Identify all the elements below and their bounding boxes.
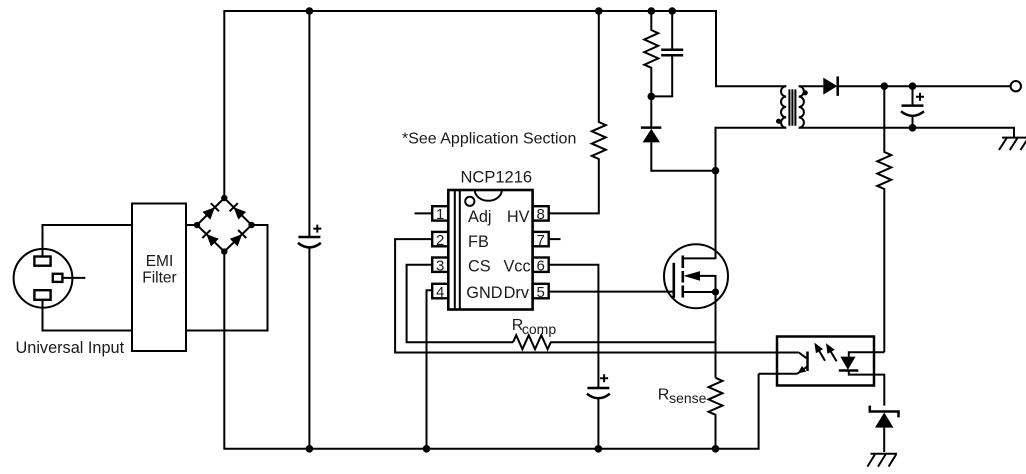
- MOSFET Q1: [664, 244, 728, 308]
- wire: primary bottom to MOSFET drain: [716, 128, 787, 259]
- EMI filter block: [132, 204, 186, 352]
- junction: Vcc cap on bottom rail: [595, 445, 603, 453]
- wire: pin 3 CS to Rcomp line: [407, 265, 513, 343]
- wire: secondary bottom / output return: [799, 128, 1014, 138]
- wire: pin 6 Vcc line: [549, 265, 599, 388]
- svg-text:Drv: Drv: [504, 284, 530, 302]
- wire: plug neutral to EMI filter (bottom): [43, 300, 133, 331]
- svg-text:Adj: Adj: [468, 208, 492, 226]
- svg-text:sense: sense: [669, 390, 707, 406]
- junction: bridge bottom corner: [221, 248, 227, 254]
- label: Universal Input: [16, 339, 125, 357]
- transformer T1 primary winding: [781, 86, 786, 128]
- svg-text:*See Application Section: *See Application Section: [402, 131, 576, 148]
- output rectifier diode D6: [823, 76, 837, 96]
- junction: bridge top corner: [221, 195, 227, 201]
- svg-text:comp: comp: [522, 321, 556, 337]
- optocoupler light arrows: [814, 343, 836, 362]
- bridge rectifier BR1: [197, 198, 252, 252]
- IC pin 4 box: [432, 284, 448, 301]
- snubber capacitor C2: [651, 11, 683, 96]
- junction: snubber R and C bottom: [648, 93, 656, 101]
- wire: plug line to EMI filter (top): [43, 225, 133, 257]
- bulk capacitor C1 (polarized): [298, 11, 321, 449]
- resistor R5 Rsense: [709, 378, 723, 449]
- IC pin labels: [466, 208, 530, 302]
- Vcc capacitor C4 (polarized): [587, 374, 610, 449]
- bridge diode D3 (bottom corner to left corner): [202, 230, 219, 246]
- wire: bottom primary ground rail: [224, 252, 758, 449]
- resistor R1 (HV startup, see application section): [549, 11, 606, 213]
- IC pin 2 box: [432, 232, 448, 249]
- output terminal: [1011, 81, 1021, 91]
- resistor R4 Rcomp: [513, 335, 716, 349]
- wire: opto emitter to ground rail: [759, 373, 777, 375]
- transformer T1 secondary winding: [799, 86, 804, 128]
- junction: bulk cap on top rail: [306, 7, 314, 15]
- wire: bridge AC2 return to EMI filter: [186, 225, 268, 331]
- svg-text:4: 4: [436, 284, 444, 301]
- junction: output cap bottom: [909, 124, 917, 132]
- svg-text:1: 1: [436, 206, 444, 223]
- IC body: [448, 190, 532, 310]
- IC pin 5 box: [533, 284, 549, 301]
- wire: secondary top to output diode: [799, 85, 824, 87]
- AC plug P1 (universal input connector): [14, 249, 86, 308]
- svg-text:5: 5: [537, 284, 545, 301]
- IC pin 1 box: [432, 206, 448, 223]
- IC pin 8 box: [533, 206, 549, 223]
- bridge diode D2 (right corner to top corner): [230, 203, 247, 219]
- snubber resistor R2: [644, 11, 658, 96]
- wire: MOSFET source to Rsense: [715, 292, 717, 378]
- junction: snubber resistor on rail: [648, 7, 656, 15]
- svg-text:HV: HV: [507, 208, 530, 226]
- wire: pin 2 FB to optocoupler collector: [395, 239, 799, 352]
- junction: bulk cap on bottom rail: [306, 445, 314, 453]
- label: Rsense: [658, 387, 707, 407]
- zener diode Z1: [870, 406, 899, 452]
- transformer T1 core: [789, 89, 795, 125]
- bridge diode D1 (left corner to top corner): [203, 203, 220, 219]
- wire: top DC+ rail: [224, 11, 786, 198]
- ground: zener ground: [867, 454, 897, 467]
- output capacitor C3 (polarized): [901, 86, 924, 128]
- svg-text:Universal Input: Universal Input: [16, 339, 125, 357]
- wire: pin 7 stub: [549, 238, 561, 240]
- svg-text:Filter: Filter: [142, 270, 176, 287]
- optocoupler U2: [777, 337, 874, 386]
- junction: startup resistor on top rail: [595, 7, 603, 15]
- wire: pin 4 GND to ground rail: [427, 290, 433, 449]
- svg-text:R: R: [658, 387, 670, 404]
- junction: bridge right corner: [248, 222, 254, 228]
- ground: secondary output ground: [999, 138, 1026, 150]
- svg-text:GND: GND: [466, 284, 502, 302]
- svg-text:3: 3: [436, 258, 444, 275]
- label: Rcomp: [512, 317, 557, 337]
- transformer primary phase dot: [776, 119, 781, 124]
- label: NCP1216: [461, 169, 533, 187]
- label: *See Application Section: [402, 131, 576, 148]
- junction: snubber cap on rail: [668, 7, 676, 15]
- svg-text:6: 6: [537, 258, 545, 275]
- junction: feedback tap on output: [881, 82, 889, 90]
- wire: pin 5 Drv to MOSFET gate: [549, 291, 674, 293]
- wire: pin 1 Adj stub: [415, 212, 433, 214]
- wire: output positive line: [838, 85, 1011, 87]
- svg-text:NCP1216: NCP1216: [461, 169, 533, 187]
- svg-text:8: 8: [537, 206, 545, 223]
- junction: clamp diode to drain line: [712, 167, 720, 175]
- junction: MOSFET source/body: [712, 288, 719, 295]
- junction: bridge left corner: [194, 222, 200, 228]
- svg-text:FB: FB: [468, 233, 489, 251]
- optocoupler LED: [839, 352, 885, 405]
- junction: Rsense on bottom rail: [712, 445, 720, 453]
- svg-text:CS: CS: [468, 258, 491, 276]
- wire: EMI filter to bridge AC1: [186, 224, 197, 226]
- IC pin 7 box: [533, 232, 549, 249]
- clamp diode D5: [641, 96, 716, 170]
- IC pin 3 box: [432, 258, 448, 275]
- transformer secondary phase dot: [803, 90, 808, 95]
- optocoupler phototransistor: [777, 352, 808, 374]
- svg-text:2: 2: [436, 232, 444, 249]
- resistor R3 (feedback upper, to opto LED): [877, 86, 891, 352]
- svg-text:EMI: EMI: [146, 253, 174, 270]
- junction: GND pin on bottom rail: [423, 445, 431, 453]
- IC pin 6 box: [533, 258, 549, 275]
- svg-text:Vcc: Vcc: [503, 258, 530, 276]
- junction: output cap top: [909, 82, 917, 90]
- svg-text:7: 7: [537, 232, 545, 249]
- bridge diode D4 (bottom corner to right corner): [230, 230, 247, 246]
